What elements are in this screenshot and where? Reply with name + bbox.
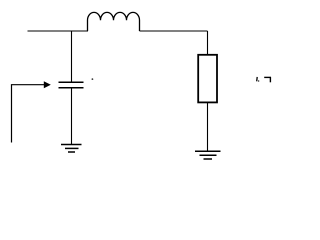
wire junction to capacitor	[71, 31, 73, 82]
wire top-left horizontal	[28, 30, 89, 32]
wire resistor bottom to ground	[207, 102, 209, 151]
ground right	[195, 151, 221, 159]
wire capacitor to ground	[71, 88, 73, 145]
resistor R1	[198, 55, 217, 103]
input arrow annotation	[12, 81, 51, 142]
ground left	[61, 145, 82, 153]
inductor L1	[88, 12, 140, 31]
capacitor C1	[59, 82, 84, 88]
wire into resistor top	[207, 31, 209, 55]
stray dot	[92, 78, 94, 80]
wire top-right horizontal	[140, 30, 208, 32]
label mark right (corner shape)	[264, 77, 271, 82]
label mark left (small stroke)	[257, 77, 260, 82]
